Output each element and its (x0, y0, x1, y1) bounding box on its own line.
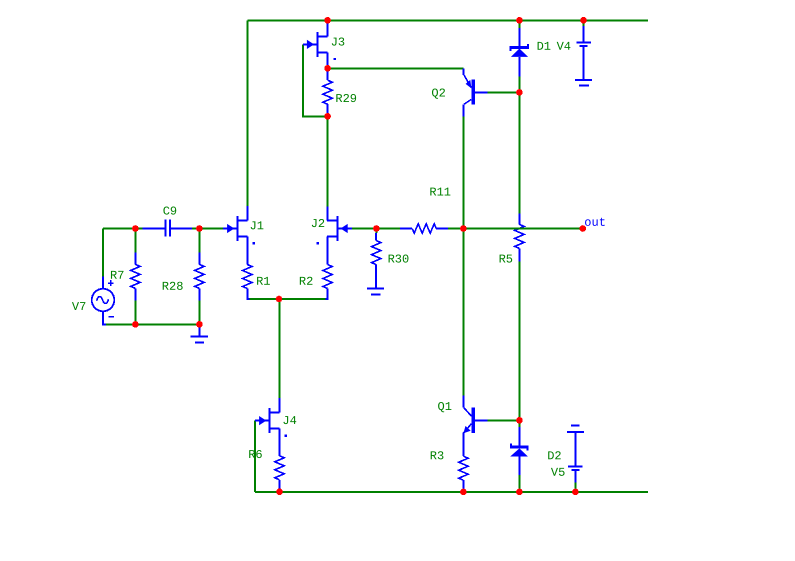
svg-text:C9: C9 (163, 205, 177, 219)
svg-text:V7: V7 (72, 300, 86, 314)
svg-text:out: out (584, 216, 606, 230)
svg-text:J1: J1 (250, 219, 264, 233)
svg-text:R1: R1 (256, 275, 270, 289)
svg-text:D2: D2 (547, 449, 561, 463)
svg-text:J2: J2 (311, 217, 325, 231)
svg-text:R30: R30 (388, 253, 410, 267)
svg-text:R7: R7 (110, 269, 124, 283)
svg-text:R29: R29 (335, 92, 357, 106)
svg-text:R28: R28 (162, 280, 184, 294)
svg-text:R3: R3 (430, 449, 444, 463)
svg-text:J4: J4 (282, 414, 296, 428)
svg-text:J3: J3 (331, 36, 345, 50)
svg-text:R11: R11 (429, 186, 451, 200)
svg-text:D1: D1 (537, 40, 551, 54)
svg-text:Q2: Q2 (431, 87, 445, 101)
svg-text:R5: R5 (499, 253, 513, 267)
svg-text:R2: R2 (299, 275, 313, 289)
svg-text:Q1: Q1 (437, 400, 451, 414)
svg-text:V5: V5 (551, 466, 565, 480)
svg-text:R6: R6 (248, 448, 262, 462)
svg-text:V4: V4 (557, 40, 571, 54)
